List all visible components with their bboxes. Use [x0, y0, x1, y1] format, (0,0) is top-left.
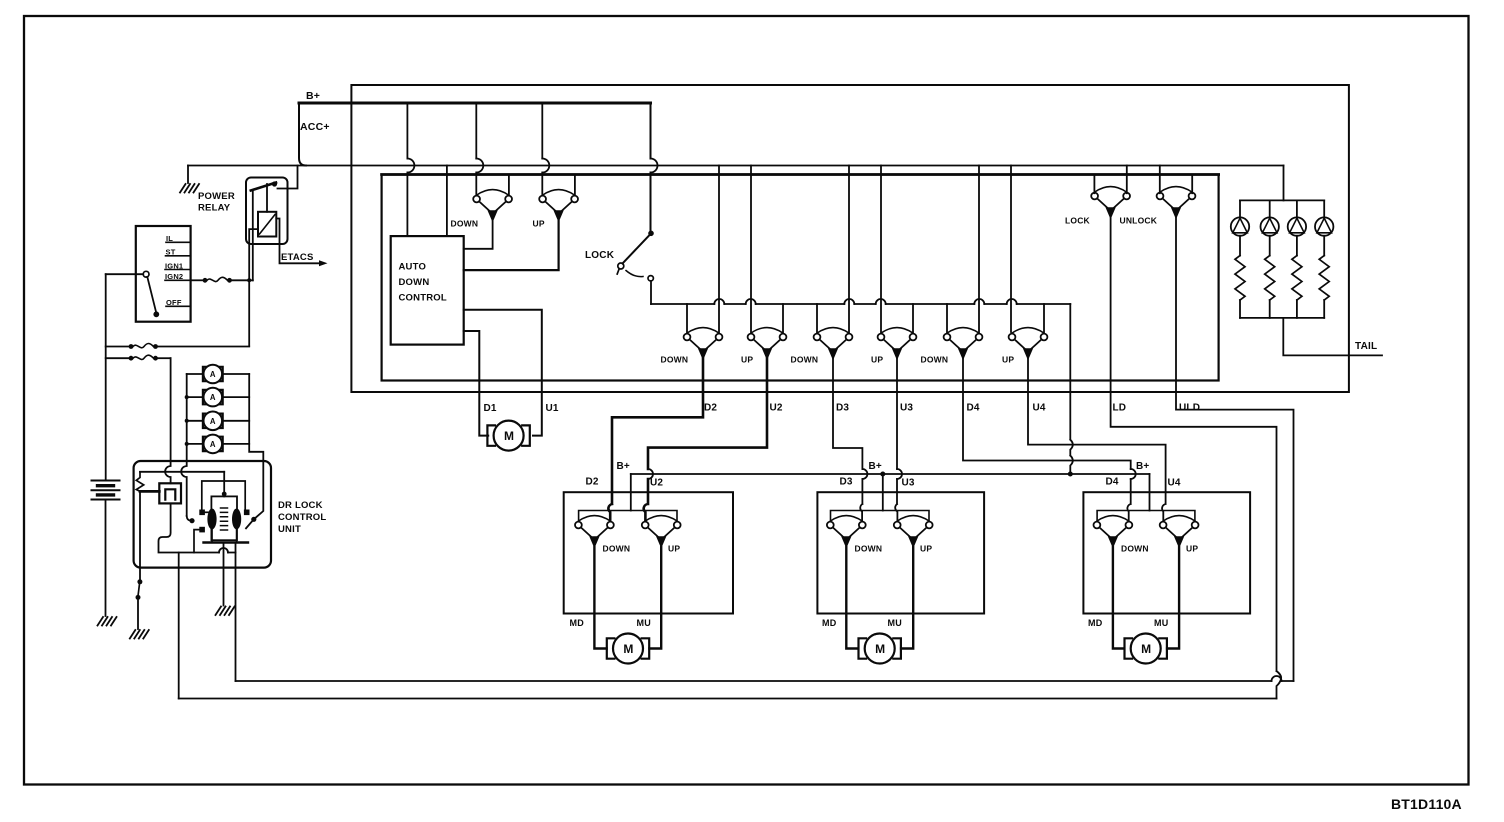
- rocker unit1 UP: [642, 516, 681, 548]
- svg-text:RELAY: RELAY: [198, 203, 231, 214]
- svg-text:MD: MD: [1088, 618, 1103, 628]
- wire assembly top lead: [223, 472, 225, 497]
- wire U2 to unit1: [644, 359, 767, 523]
- resistor 2: [1265, 256, 1275, 300]
- svg-text:UP: UP: [1002, 355, 1014, 365]
- svg-text:MD: MD: [822, 618, 837, 628]
- wire left terminal lead: [205, 511, 212, 513]
- ground key switch: [130, 630, 149, 639]
- wire unit1 MD leg: [594, 547, 606, 649]
- wire assembly bridge: [202, 481, 245, 510]
- motor unit3 M: [1125, 634, 1167, 664]
- wire B+ rail: [299, 102, 651, 105]
- wire small box output staircase: [159, 503, 236, 552]
- rocker unit2 DOWN: [827, 516, 866, 548]
- wire fuse left bus: [181, 374, 187, 516]
- wire left battery bus: [105, 274, 107, 479]
- svg-text:DOWN: DOWN: [451, 219, 479, 229]
- rocker UP rear-right: [1009, 328, 1048, 360]
- svg-text:MU: MU: [637, 618, 651, 628]
- svg-text:DOWN: DOWN: [855, 544, 883, 554]
- rocker UNLOCK: [1157, 187, 1196, 219]
- wire switch and ground leg: [139, 491, 141, 579]
- svg-text:UP: UP: [1186, 544, 1198, 554]
- svg-text:LOCK: LOCK: [1065, 216, 1091, 226]
- wire unit3 MU leg: [1167, 547, 1179, 649]
- wire coil left lead down to row1: [249, 229, 258, 346]
- svg-text:DOWN: DOWN: [1121, 544, 1149, 554]
- svg-text:MD: MD: [570, 618, 585, 628]
- svg-text:D2: D2: [586, 477, 599, 488]
- rocker DOWN rear-left: [814, 328, 853, 360]
- wire ignition feed left: [106, 273, 144, 275]
- svg-text:DR LOCK: DR LOCK: [278, 500, 323, 511]
- svg-text:ULD: ULD: [1179, 403, 1200, 414]
- power relay coil box: [258, 212, 276, 237]
- svg-text:DOWN: DOWN: [661, 355, 689, 365]
- wire assembly bottom rail: [204, 541, 249, 543]
- svg-text:D2: D2: [704, 403, 717, 414]
- main switch inner box: [382, 175, 1219, 381]
- rocker unit3 DOWN: [1094, 516, 1133, 548]
- wire ADC pin4 D1: [464, 331, 489, 436]
- wire D2 to unit1: [608, 359, 703, 523]
- circuit breaker fuse 3: [203, 412, 223, 431]
- wire bus stubs to rocker B+ circles: [687, 304, 1044, 332]
- wire ADC pin3 U1: [464, 310, 542, 436]
- driver rocker feeds from B+ rail: [476, 103, 542, 197]
- resistor 3: [1292, 256, 1302, 300]
- wire unit2 MD leg: [846, 547, 858, 649]
- svg-text:TAIL: TAIL: [1355, 341, 1377, 352]
- ground battery: [98, 617, 117, 626]
- wire ADC ACC input: [446, 166, 448, 237]
- wire relay contact to ACC+: [278, 166, 298, 189]
- wire U4 to unit3: [1028, 359, 1166, 523]
- wire LD long bottom line: [179, 698, 1277, 700]
- svg-text:D4: D4: [967, 403, 980, 414]
- illumination lamp 4: [1315, 217, 1333, 235]
- wire B+ bus for door units: [631, 473, 1150, 475]
- svg-text:CONTROL: CONTROL: [278, 512, 326, 523]
- wire B+ tap unit1: [630, 474, 632, 511]
- power relay contact blade: [251, 183, 276, 191]
- wire fuse right bus into unit: [246, 374, 263, 528]
- wire U3 to unit2: [895, 359, 897, 523]
- wire ADC pin2 to UP vertex: [464, 221, 559, 270]
- svg-text:B+: B+: [617, 461, 630, 472]
- wire spreader unit3: [1097, 511, 1195, 523]
- wire LD run: [1111, 218, 1282, 699]
- door lock relay coil assembly: [211, 496, 237, 540]
- rocker DOWN driver: [473, 190, 512, 222]
- wire ACC+ line: [188, 165, 1284, 167]
- LOCK switch: [648, 231, 654, 237]
- wire unit inner top rail: [140, 471, 224, 473]
- wire TAIL output: [1283, 318, 1382, 356]
- svg-text:DOWN: DOWN: [603, 544, 631, 554]
- component small box: [159, 483, 181, 503]
- wire ULD run: [1176, 218, 1294, 681]
- motor unit2 M: [859, 634, 901, 664]
- wire assembly to ground: [223, 543, 225, 606]
- svg-text:B+: B+: [1136, 461, 1149, 472]
- illumination lamp 2: [1261, 217, 1279, 235]
- svg-text:U1: U1: [546, 403, 559, 414]
- door lock control unit box: [134, 461, 271, 568]
- wire rocker ACC verticals: [719, 166, 1011, 333]
- svg-text:UNLOCK: UNLOCK: [1120, 216, 1158, 226]
- svg-text:D4: D4: [1106, 477, 1119, 488]
- svg-text:UNIT: UNIT: [278, 524, 301, 535]
- lamp bottom rail: [1240, 317, 1324, 319]
- hop arc staircase over ground wire: [219, 548, 228, 553]
- wire B+ tap unit2: [882, 474, 884, 511]
- wire unit3 MD leg: [1113, 547, 1124, 649]
- svg-text:UP: UP: [871, 355, 883, 365]
- lamp top rail: [1240, 199, 1324, 201]
- svg-text:DOWN: DOWN: [921, 355, 949, 365]
- wire IGN2 out with connector: [191, 279, 203, 281]
- wire ULD return riser: [235, 543, 237, 682]
- svg-text:U2: U2: [650, 478, 663, 489]
- rocker DOWN front-left: [684, 328, 723, 360]
- terminal squares: [199, 510, 205, 516]
- illumination lamp 3: [1288, 217, 1306, 235]
- wire spreader unit2: [831, 511, 930, 523]
- ground ACC line left: [187, 166, 189, 184]
- wire bus feed drop to B+ bus: [1070, 304, 1073, 474]
- svg-text:B+: B+: [869, 461, 882, 472]
- svg-text:AUTO: AUTO: [399, 262, 427, 273]
- resistor 1: [1235, 256, 1245, 300]
- wire spreader unit1: [579, 511, 677, 523]
- rocker DOWN rear-right: [944, 328, 983, 360]
- svg-text:U3: U3: [902, 478, 915, 489]
- svg-text:U4: U4: [1168, 478, 1181, 489]
- svg-text:MU: MU: [1154, 618, 1168, 628]
- motor unit1 M: [607, 634, 649, 664]
- wire row2 with connector: [106, 357, 129, 359]
- door unit 3 box: [1083, 492, 1250, 613]
- svg-text:DOWN: DOWN: [791, 355, 819, 365]
- wire battery to ground: [105, 500, 107, 617]
- wire bottom-left terminal lead: [194, 530, 199, 553]
- wire D3 to unit2: [833, 359, 862, 523]
- wire lock rocker stubs: [1127, 166, 1160, 194]
- svg-text:UP: UP: [741, 355, 753, 365]
- svg-text:LD: LD: [1113, 403, 1127, 414]
- illumination lamp 1: [1231, 217, 1249, 235]
- wire lock bus: [651, 303, 1070, 305]
- circuit breaker fuse 4: [203, 435, 223, 454]
- svg-text:UP: UP: [668, 544, 680, 554]
- svg-text:DOWN: DOWN: [399, 277, 430, 288]
- svg-text:U3: U3: [900, 403, 913, 414]
- wire unit2 MU leg: [901, 547, 913, 649]
- wire row2 drop to control unit: [165, 358, 170, 483]
- svg-text:MU: MU: [888, 618, 902, 628]
- wire relay pivot down: [252, 191, 254, 281]
- svg-text:UP: UP: [920, 544, 932, 554]
- resistor squiggle left: [136, 472, 143, 492]
- wire unit1 MU leg: [649, 547, 661, 649]
- rocker LOCK: [1091, 187, 1130, 219]
- wire ULD long bottom line: [236, 680, 1294, 682]
- svg-text:POWER: POWER: [198, 191, 235, 202]
- wire D4 to unit3: [963, 359, 1131, 523]
- wire B+ drop to LOCK: [650, 103, 652, 231]
- svg-text:D3: D3: [840, 477, 853, 488]
- ignition switch box: [136, 226, 191, 322]
- svg-text:LOCK: LOCK: [585, 250, 615, 261]
- resistor 4: [1319, 256, 1329, 300]
- power relay box: [246, 178, 288, 245]
- svg-text:ACC+: ACC+: [300, 121, 330, 133]
- svg-text:B+: B+: [306, 90, 320, 102]
- auto down control box: [391, 236, 464, 345]
- svg-text:D1: D1: [484, 403, 497, 414]
- ignition switch lever: [143, 271, 149, 277]
- wire lamp feed from ACC+: [1283, 166, 1285, 201]
- wire coil top lead: [266, 184, 268, 212]
- wire ADC B+ input: [406, 103, 408, 236]
- rocker unit3 UP: [1160, 516, 1199, 548]
- wire LD return riser: [178, 553, 180, 699]
- rocker unit2 UP: [894, 516, 933, 548]
- wire ADC pin1 to DOWN vertex: [464, 221, 493, 249]
- battery: [92, 481, 120, 500]
- svg-text:CONTROL: CONTROL: [399, 293, 447, 304]
- ground assembly: [216, 607, 235, 616]
- rocker UP driver: [539, 190, 578, 222]
- wire to key component: [140, 490, 159, 493]
- circuit breaker fuse 2: [203, 388, 223, 407]
- rocker unit1 DOWN: [575, 516, 614, 548]
- svg-text:BT1D110A: BT1D110A: [1391, 796, 1462, 812]
- driver rocker stubs to relay rail: [509, 175, 575, 197]
- rocker UP front-left: [748, 328, 787, 360]
- door unit 2 box: [817, 492, 984, 613]
- rocker UP rear-left: [878, 328, 917, 360]
- wire ETACS lead: [276, 219, 319, 264]
- svg-text:U2: U2: [770, 403, 783, 414]
- svg-text:D3: D3: [836, 403, 849, 414]
- svg-text:U4: U4: [1033, 403, 1046, 414]
- wire B+ tap unit3: [1149, 474, 1151, 511]
- svg-text:UP: UP: [533, 219, 545, 229]
- main switch outer box: [351, 85, 1349, 392]
- door unit 1 box: [564, 492, 733, 613]
- wire ACC+ feed drop: [299, 104, 306, 166]
- circuit breaker fuse 1: [203, 365, 223, 384]
- motor driver window M: [487, 421, 529, 451]
- wire row1 with connector: [106, 346, 129, 348]
- svg-text:ETACS: ETACS: [281, 252, 314, 263]
